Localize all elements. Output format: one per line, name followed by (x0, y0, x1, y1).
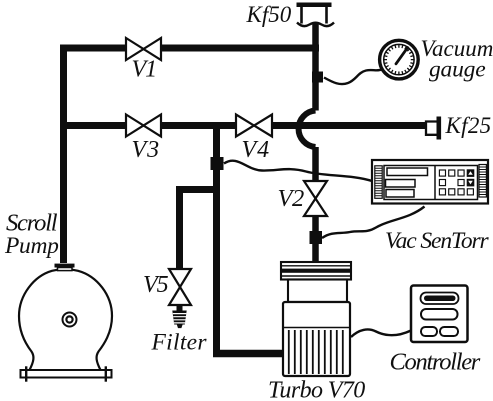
filter element (172, 311, 186, 329)
wire: squiggle node A to vacuum gauge (324, 70, 382, 85)
svg-text:V1: V1 (132, 57, 157, 83)
display bar 2 (386, 180, 416, 188)
node C: sensor tap below V2 (310, 231, 323, 244)
valve V4 (236, 115, 272, 137)
wire: top horizontal pipe left segment (left riser to V1) (60, 45, 126, 52)
vacuum gauge (380, 40, 419, 79)
display bar 3 (386, 190, 414, 198)
scroll pump eye (63, 313, 77, 327)
valve V1 (126, 38, 161, 60)
wire: Kf50 vertical pipe upper (flange to crossover) (312, 23, 319, 111)
display bar 1 (387, 168, 428, 176)
controller box (411, 286, 468, 343)
valve V5 (169, 269, 191, 305)
wire: bottom horizontal pipe to turbo pump (213, 350, 284, 358)
wire: filter branch horizontal segment (176, 186, 220, 193)
controller bottom-left button (421, 327, 437, 336)
node B: sensor tap on middle pipe (211, 157, 224, 170)
Kf50 flange symbol (297, 3, 335, 27)
node A: gauge tap on Kf50 riser (312, 72, 323, 83)
wire: second horizontal pipe right segment (V4 to Kf25 flange) (272, 122, 426, 129)
wire: middle vertical pipe (tee at second pipe down to bottom elbow) (213, 122, 220, 354)
scroll pump body (19, 264, 112, 382)
valve V2 (304, 181, 327, 216)
scroll pump base bar (21, 370, 112, 378)
svg-text:Controller: Controller (390, 349, 481, 376)
wire: squiggle node C to Vac SenTorr bottom (322, 207, 425, 239)
turbo ribs (289, 330, 343, 374)
scroll pump right base bolt (105, 366, 107, 381)
svg-text:Kf25: Kf25 (445, 113, 492, 138)
svg-text:Vac SenTorr: Vac SenTorr (385, 228, 490, 254)
svg-text:gauge: gauge (429, 57, 485, 83)
turbo rib separator (283, 327, 350, 329)
svg-text:Kf50: Kf50 (246, 2, 292, 27)
turbo top flange (striped) (281, 262, 351, 280)
controller display slot (421, 293, 459, 305)
wire: top horizontal pipe right segment (V1 to Kf50 riser) (161, 45, 319, 52)
rack ear hatching left (375, 166, 382, 199)
wire: stub between V5 and filter (177, 305, 183, 311)
turbo pump V70 (281, 262, 351, 376)
keypad down button (467, 179, 474, 186)
keypad up button (467, 170, 474, 177)
svg-text:Filter: Filter (151, 330, 208, 356)
controller bottom-right button (440, 327, 458, 336)
valve V3 (126, 115, 161, 137)
wire: second horizontal pipe left segment (left riser to V3) (60, 122, 126, 129)
wire: squiggle node B to Vac SenTorr left side (224, 161, 372, 181)
svg-text:Turbo V70: Turbo V70 (268, 378, 365, 401)
wire: filter branch vertical pipe down to V5 (176, 186, 183, 269)
wire: Kf50 vertical pipe middle (crossover to V2) (312, 147, 319, 181)
svg-text:V5: V5 (143, 272, 169, 298)
turbo body (283, 302, 350, 376)
keypad buttons (439, 170, 473, 195)
turbo neck (288, 280, 347, 303)
wire: crossover hop arc over second pipe (299, 111, 316, 148)
rack ear hatching right (479, 165, 486, 198)
scroll pump left base bolt (25, 366, 27, 381)
svg-text:Pump: Pump (4, 233, 59, 259)
svg-text:V3: V3 (132, 137, 161, 163)
wire: second horizontal pipe middle segment (V3 to V4) (161, 122, 236, 129)
svg-text:V4: V4 (242, 137, 271, 163)
wire: left vertical pipe down to scroll pump (60, 45, 67, 264)
scroll pump inlet flange (55, 264, 75, 268)
wire: squiggle turbo pump to controller (351, 329, 411, 337)
Kf25 flange symbol (426, 117, 441, 140)
instrument Vac SenTorr front panel (372, 160, 488, 204)
wire: vertical pipe V2 to turbo flange (312, 216, 319, 262)
controller middle slot (421, 309, 458, 320)
svg-text:V2: V2 (278, 185, 304, 212)
